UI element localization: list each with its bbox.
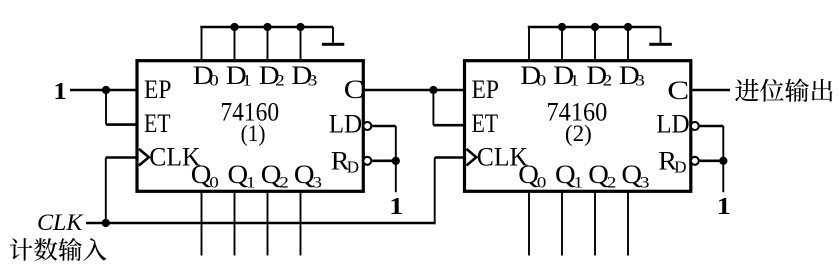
U2 pin label Q2 — [588, 159, 616, 191]
U2 pin label D0 — [520, 61, 546, 91]
junction on U1 D bus at x=268 — [263, 23, 271, 31]
junction: U2 EP/ET tie node — [429, 86, 437, 94]
wire: U1 D0 pin vertical — [201, 27, 203, 61]
U2 pin label RD — [658, 146, 686, 176]
junction on U2 D bus at x=562 — [558, 23, 566, 31]
wire: U1 C output to U2 EP — [365, 89, 465, 92]
U1 pin label Q3 — [294, 159, 322, 191]
svg-text:EP: EP — [472, 74, 499, 104]
svg-text:0: 0 — [209, 173, 219, 191]
junction: CLK branch to U1 — [102, 219, 110, 227]
U2 pin label Q1 — [555, 159, 583, 191]
U2 LD active-low bubble — [691, 122, 699, 130]
svg-text:D: D — [347, 158, 359, 177]
svg-text:D: D — [674, 158, 686, 177]
U2 RD active-low bubble — [691, 157, 699, 165]
svg-text:C: C — [344, 76, 364, 105]
wire: U2 bus drop to ground — [660, 27, 662, 43]
wire: U2 tie node down to logic-1 label — [722, 161, 724, 192]
wire: U1 Q0 output stub — [201, 191, 203, 256]
wire: U1 LD vertical down to RD net — [395, 126, 397, 161]
svg-text:EP: EP — [144, 74, 171, 104]
U1 pin label D3 — [291, 61, 317, 91]
wire: U2 D0 pin vertical — [528, 27, 530, 61]
ground symbol for U2 D inputs — [649, 43, 672, 46]
wire: U2 Q3 output stub — [627, 191, 629, 256]
svg-text:ET: ET — [472, 108, 499, 138]
wire: CLK bus from input label — [86, 222, 435, 225]
U1 pin label D1 — [226, 61, 252, 91]
U1 pin label D2 — [259, 61, 285, 91]
U2 CLK edge-trigger wedge — [466, 149, 476, 166]
wire: logic 1 to U1 EP — [70, 89, 137, 92]
wire: U2 D1 pin vertical — [561, 27, 563, 61]
svg-text:LD: LD — [329, 108, 363, 138]
wire: U2 Q2 output stub — [594, 191, 596, 256]
U1 pin label RD — [331, 146, 359, 176]
wire: U2 LD vertical down to RD net — [722, 126, 724, 161]
wire: tie node down to ET level — [105, 90, 107, 125]
wire: U1 D3 pin vertical — [300, 27, 302, 61]
U2 pin label D1 — [553, 61, 579, 91]
svg-text:1: 1 — [570, 71, 580, 89]
junction on U2 D bus at x=628 — [624, 23, 632, 31]
wire: U2 D3 pin vertical — [627, 27, 629, 61]
U1 pin label Q1 — [228, 159, 256, 191]
svg-text:1: 1 — [246, 173, 256, 191]
svg-text:2: 2 — [275, 71, 285, 89]
wire: U2 D0-D3 common bus to ground — [528, 26, 661, 29]
svg-text:CLK: CLK — [37, 210, 84, 235]
wire: U1 LD to tie-high — [372, 125, 396, 128]
wire: U2 LD to tie-high — [700, 125, 724, 128]
U1 CLK edge-trigger wedge — [139, 149, 149, 166]
wire: U1 D2 pin vertical — [267, 27, 269, 61]
U1 pin label Q2 — [261, 159, 289, 191]
wire: U2 RD to tie-high — [700, 160, 724, 163]
U1 RD active-low bubble — [363, 157, 371, 165]
wire: U1 Q2 output stub — [267, 191, 269, 256]
wire: U2 D2 pin vertical — [594, 27, 596, 61]
wire: into U1 ET — [106, 123, 137, 126]
wire: U1 D0-D3 common bus to ground — [200, 26, 333, 29]
svg-text:1: 1 — [574, 173, 584, 191]
wire: U1 tie node down to logic-1 label — [395, 161, 397, 192]
svg-text:3: 3 — [312, 173, 322, 191]
wire: into U2 ET — [433, 124, 464, 127]
wire: U2 C carry output — [692, 89, 730, 92]
wire: U2 Q1 output stub — [561, 191, 563, 256]
svg-text:1: 1 — [717, 192, 731, 220]
ground symbol for U1 D inputs — [322, 43, 345, 46]
label: count input (Chinese) — [10, 238, 107, 261]
junction on U1 D bus at x=234 — [230, 23, 238, 31]
wire: junction down to U2 ET level — [432, 90, 434, 125]
svg-text:C: C — [667, 76, 689, 105]
label: carry output (Chinese) — [735, 79, 832, 102]
svg-text:0: 0 — [537, 71, 547, 89]
svg-text:3: 3 — [308, 71, 318, 89]
U1 pin label D0 — [193, 61, 219, 91]
svg-text:0: 0 — [537, 173, 547, 191]
wire: U1 D1 pin vertical — [234, 27, 236, 61]
wire: into U2 CLK — [435, 156, 465, 159]
junction on U2 D bus at x=595 — [591, 23, 599, 31]
svg-text:LD: LD — [656, 108, 690, 138]
svg-text:3: 3 — [640, 173, 650, 191]
wire: U2 Q0 output stub — [528, 191, 530, 256]
svg-text:(2): (2) — [565, 121, 592, 147]
svg-text:2: 2 — [607, 173, 617, 191]
junction: U1 LD/RD tie node — [392, 157, 400, 165]
wire: U1 Q1 output stub — [234, 191, 236, 256]
svg-text:1: 1 — [242, 71, 252, 89]
IC U2: 74160 (2) counter, body outline — [465, 61, 691, 192]
wire: CLK riser to U2 — [434, 158, 436, 225]
IC U1: 74160 (1) counter, body outline — [137, 61, 363, 192]
junction: EP/ET tie node — [102, 86, 110, 94]
svg-text:2: 2 — [279, 173, 289, 191]
wire: U1 RD to tie-high — [372, 160, 396, 163]
U2 pin label Q0 — [518, 159, 546, 191]
U1 pin label Q0 — [191, 159, 219, 191]
U2 pin label D2 — [586, 61, 612, 91]
junction: U2 LD/RD tie node — [719, 157, 727, 165]
U2 pin label Q3 — [621, 159, 649, 191]
svg-text:3: 3 — [635, 71, 645, 89]
svg-text:ET: ET — [144, 108, 171, 138]
wire: U1 bus drop to ground — [332, 27, 334, 43]
svg-text:(1): (1) — [241, 121, 266, 147]
U1 LD active-low bubble — [363, 122, 371, 130]
svg-text:1: 1 — [53, 77, 66, 105]
wire: CLK riser to U1 — [105, 158, 107, 224]
wire: U1 Q3 output stub — [300, 191, 302, 256]
svg-text:1: 1 — [389, 192, 403, 220]
svg-text:0: 0 — [209, 71, 219, 89]
U2 pin label D3 — [619, 61, 645, 91]
junction on U1 D bus at x=300 — [296, 23, 304, 31]
wire: into U1 CLK — [106, 156, 137, 159]
svg-text:2: 2 — [603, 71, 613, 89]
